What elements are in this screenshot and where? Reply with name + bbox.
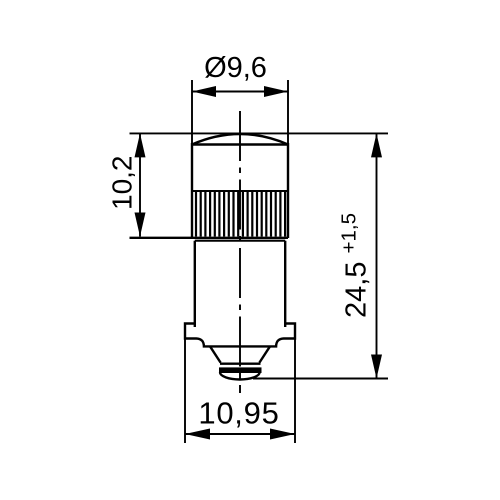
knurl hatching: [196, 192, 285, 237]
knurl top edge: [192, 190, 288, 192]
contact tip top line: [220, 363, 261, 365]
arrowhead right of 9,6: [264, 86, 288, 97]
base sleeve left wall: [194, 241, 196, 327]
contact insulator left slant: [210, 347, 220, 363]
contact tip bottom arc: [220, 372, 260, 379]
bottom extension line for 24,5: [253, 378, 388, 380]
arrowhead right of 10,95: [270, 429, 295, 440]
right extension line of 10,95: [294, 338, 296, 443]
arrowhead left of 9,6: [192, 86, 216, 97]
dome chord line: [192, 143, 288, 145]
dimension line 24,5: [376, 133, 378, 378]
base sleeve right wall: [284, 241, 286, 327]
lamp body right wall: [287, 143, 289, 238]
lamp body left wall: [191, 143, 193, 238]
centerline (dash-dot): [239, 111, 241, 393]
arrowhead up of 10,2: [135, 133, 146, 157]
arrowhead down of 24,5: [371, 355, 382, 379]
dimension line 10,2: [139, 133, 141, 236]
contact solder band: [219, 367, 262, 373]
extension line left (diameter 9,6): [191, 80, 193, 146]
extension line right (diameter 9,6): [287, 80, 289, 146]
base sleeve top edge: [195, 240, 285, 242]
knurl bottom edge merged with 10,2 lower extension line: [130, 237, 289, 239]
dimension line diameter 9,6: [192, 91, 288, 93]
dimension line 10,95: [185, 433, 295, 435]
arrowhead up of 24,5: [371, 133, 382, 157]
flange and base bottom contour: [185, 324, 295, 347]
contact insulator right slant: [259, 347, 269, 363]
svg-text:Ø9,6: Ø9,6: [204, 52, 267, 84]
svg-text:10,95: 10,95: [198, 396, 279, 431]
left extension line of 10,95: [184, 338, 186, 443]
lamp dome lens: [192, 134, 288, 145]
arrowhead down of 10,2: [135, 213, 146, 237]
arrowhead left of 10,95: [185, 429, 210, 440]
top shared extension line for 10,2 and 24,5: [130, 132, 389, 134]
svg-text:10,2: 10,2: [107, 156, 138, 211]
